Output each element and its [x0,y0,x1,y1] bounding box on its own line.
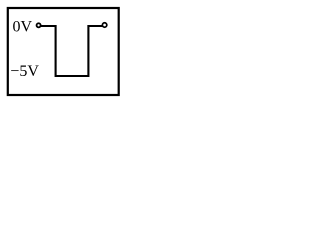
svg-text:0V: 0V [13,19,33,36]
svg-text:−5V: −5V [10,63,39,80]
